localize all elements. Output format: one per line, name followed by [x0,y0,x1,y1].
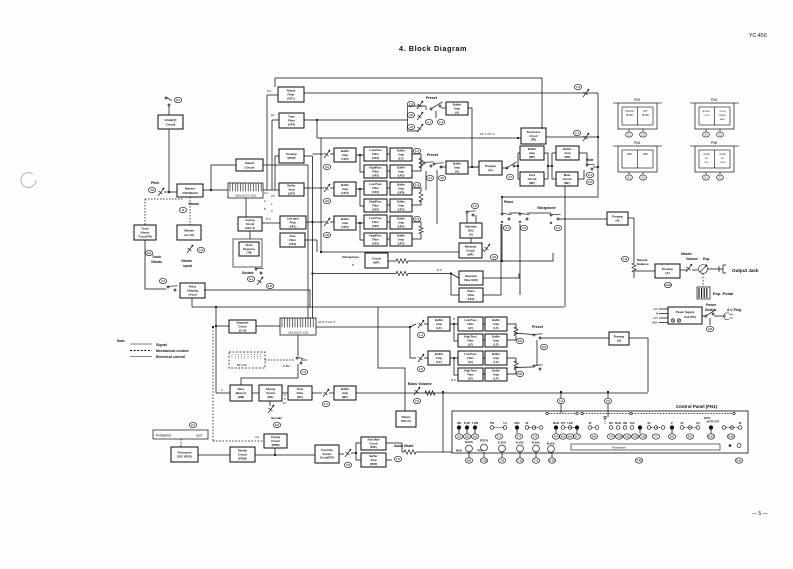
wire preamp input [274,156,276,190]
svg-text:Attack: Attack [245,161,255,165]
wire balance to preamp out [634,270,655,272]
svg-text:Filter: Filter [372,237,379,241]
svg-text:Buffer: Buffer [397,217,405,221]
svg-text:Touch: Touch [141,227,149,231]
panel PN5 [690,141,739,180]
connector 7-4 [407,101,414,106]
svg-text:7-6: 7-6 [415,399,419,403]
svg-text:Buffer: Buffer [397,149,405,153]
svg-text:Balance: Balance [637,262,649,266]
svg-text:Amp: Amp [398,169,404,173]
box Integrator [229,320,256,333]
wire MF mid [548,165,552,167]
wire lp UF3 [387,187,390,189]
power supply symbols [671,319,680,322]
wire to MF2 top [552,152,556,154]
svg-text:8-2: 8-2 [147,251,151,255]
wire trunk v3 [307,165,309,318]
svg-text:Filter: Filter [372,220,379,224]
pot UF2 [324,150,330,158]
junction [168,191,170,193]
svg-text:(UF3): (UF3) [372,207,379,211]
box Buffer [390,216,412,229]
svg-text:(UF5): (UF5) [372,224,379,228]
wire piano sw1 down [501,224,503,261]
wire dashed mech to keying PDM [212,327,214,441]
svg-text:1-2: 1-2 [439,120,443,124]
wire knob tick [474,430,476,434]
wire POF to pot [339,453,344,455]
connector 4-4 [520,225,527,230]
svg-text:PITCH: PITCH [480,439,488,443]
panel connector 7-4 [532,458,539,463]
panel connector 6-9 [668,434,675,439]
panel connector 6-8 [465,458,472,463]
svg-text:Power Supply: Power Supply [676,310,695,314]
wire vib sw to preamp [559,218,607,220]
svg-text:Filter: Filter [290,220,297,224]
wire knob tick [671,430,673,434]
wire UF3 to lowpass [360,188,364,190]
svg-text:1-5: 1-5 [415,217,419,221]
svg-text:2-2: 2-2 [588,180,592,184]
svg-text:ATT: ATT [561,421,566,425]
wire MF split [518,153,520,179]
panel knob VIB [623,426,627,430]
svg-text:SPEED: SPEED [719,115,727,117]
pot vibrato speed [187,245,193,253]
contact piano1 [501,221,503,223]
wire exp to jack [708,268,720,270]
connector 1-8 [266,283,273,288]
svg-text:5-1: 5-1 [704,177,708,180]
panel knob MAN [554,426,558,430]
svg-text:6-9: 6-9 [670,435,674,439]
wire keyboard to keying [245,198,247,217]
svg-text:300T: 300T [196,434,203,438]
svg-text:(A): (A) [455,111,459,115]
wire bufferA1 down [468,108,479,167]
panel knob ATT [561,426,565,430]
wire keyboard to UF7 [263,189,279,191]
svg-text:B: B [656,312,658,316]
svg-text:Keying: Keying [246,218,255,222]
svg-text:6-11: 6-11 [736,459,742,463]
svg-text:Preset: Preset [426,96,438,100]
svg-text:Circuit: Circuit [238,324,246,328]
connector 4-6 [490,254,497,259]
svg-text:YC-450: YC-450 [749,33,767,39]
svg-text:(UF5): (UF5) [372,241,379,245]
box Buffer [279,183,304,196]
svg-text:circuit: circuit [188,293,196,297]
box Pulse [180,283,205,298]
svg-text:Switch: Switch [705,308,716,312]
svg-text:Response: Response [243,248,256,251]
junction [274,454,276,456]
svg-text:8-1: 8-1 [457,435,461,439]
svg-text:PIA: PIA [609,421,613,425]
junction [501,260,503,262]
svg-text:Master: Master [681,252,693,256]
svg-text:4-1: 4-1 [505,226,509,230]
wire buffer LF 317 [450,323,454,325]
wire mech down [144,199,146,225]
wire buffer UF5 split [356,222,360,224]
wire into keying PDM [213,440,264,442]
box High Pass [458,368,483,381]
svg-text:(LF): (LF) [493,326,498,330]
svg-text:Circuit(POF): Circuit(POF) [320,457,334,460]
box Divider [230,447,255,462]
panel knob MBAL [533,445,540,452]
wire balance down [633,272,635,278]
selector circle e [630,412,632,414]
wire to preamp POP [275,155,279,157]
wire knob dash [494,427,503,429]
pot bass sustain [268,405,274,413]
junction [316,119,318,121]
panel connector 8-2 [463,434,470,439]
panel knob VIB [457,426,461,430]
switch piano 1 [501,213,512,220]
svg-text:6-10: 6-10 [549,459,555,463]
wire UF5 input [306,221,324,223]
svg-text:8' 4': 8' 4' [266,217,271,221]
panel connector 7-12 [631,434,638,439]
svg-text:(UF2): (UF2) [341,157,348,161]
wire marimba osc to circuit [470,238,472,243]
svg-text:LEN: LEN [567,421,572,425]
wire preset2 out [441,166,446,168]
junction [359,188,361,190]
connector 1-5 [417,366,424,371]
svg-text:Buffer: Buffer [492,335,500,339]
wire keyboard to man sw [297,335,299,356]
pot UF3 [324,184,330,192]
wire v443 [443,392,452,452]
svg-text:6-7: 6-7 [575,435,579,439]
connector 1-4 [417,332,424,337]
panel connector 7-1 [495,434,502,439]
wire am to panel [416,451,443,453]
panel dot [729,444,732,447]
wire tone filter out [304,119,408,121]
svg-text:PN3: PN3 [711,98,718,102]
wire selector dash 1 [548,413,576,415]
svg-text:(UF2): (UF2) [468,297,475,301]
svg-text:6-2: 6-2 [542,345,546,349]
switch sustain [255,268,264,274]
wire rowB up [420,158,422,168]
switch glide [165,97,172,106]
preset1 bracket [408,106,427,131]
wire to integrator [216,325,229,327]
connector 4-9 [148,187,155,192]
svg-text:Glide(V): Glide(V) [165,118,177,122]
svg-text:Keying: Keying [271,435,280,439]
wire sw to marimba osc [466,213,468,223]
svg-text:Electrical control: Electrical control [156,355,185,359]
junction [311,272,313,274]
connector 2-8 [706,326,713,331]
svg-text:(UE1~5): (UE1~5) [245,226,255,230]
ac plug symbol [724,313,733,320]
exp control circle [699,265,708,274]
svg-text:Filter: Filter [468,293,475,297]
svg-text:6-9: 6-9 [592,435,596,439]
svg-text:1-6: 1-6 [199,248,203,252]
svg-text:Piano: Piano [467,289,475,293]
svg-text:2-5: 2-5 [641,134,645,137]
svg-text:Bass Volume: Bass Volume [408,382,432,386]
svg-text:ATT: ATT [643,110,648,113]
svg-text:8-3: 8-3 [473,435,477,439]
svg-text:(UF1): (UF1) [290,224,297,228]
resistor row C [419,226,423,234]
touch response outer [233,239,262,267]
wire LF up out 317 [507,324,516,329]
wire LF up out 351 [507,358,516,363]
wire supply to switch [702,315,705,317]
wire v216 [215,307,217,393]
svg-text:(UF3): (UF3) [398,207,405,211]
portament bar [571,444,720,450]
svg-text:8.0: 8.0 [696,421,700,425]
svg-text:(MF): (MF) [468,253,474,257]
svg-text:Piano: Piano [504,200,513,204]
svg-text:Portament: Portament [156,434,171,438]
svg-text:4-10: 4-10 [665,283,671,287]
svg-text:(I1~I5): (I1~I5) [239,328,247,332]
svg-text:TW: TW [490,421,495,425]
wire UF3 out upper [412,188,421,192]
svg-text:-12V: -12V [652,316,658,320]
panel knob sw [730,426,734,430]
box Preamp [607,212,628,225]
wire hp UF2 [387,170,390,172]
svg-text:7-9: 7-9 [396,457,400,461]
box Buffer [390,165,412,178]
junction [212,326,214,328]
svg-text:6-6: 6-6 [568,435,572,439]
box Touch [239,242,259,256]
wire lp out 317 [483,323,485,325]
box Buffer [334,182,356,196]
svg-text:1-7: 1-7 [324,402,328,406]
svg-text:Low Pass: Low Pass [464,352,477,356]
panel circle [737,444,741,448]
svg-text:HighPass: HighPass [369,166,382,170]
wire knob tick [516,430,518,434]
box Tone [280,233,305,247]
wire UF5 out lower [412,234,421,239]
svg-text:PRE: PRE [643,153,648,156]
panel connector 6-6 [566,434,573,439]
svg-text:EV: EV [705,158,708,160]
box Circuit [365,253,388,268]
connector 7-8 [344,462,351,467]
connector 1-3 [554,225,561,230]
wire selector riser [604,419,606,424]
panel connector 7-9 [498,458,505,463]
svg-text:7-11: 7-11 [624,435,630,439]
box Attack [236,159,263,171]
junction [409,326,411,328]
junction [517,137,519,139]
svg-text:Filter: Filter [467,338,473,342]
panel knob PIA [609,426,613,430]
box Low Pass [364,215,387,229]
svg-text:(LF): (LF) [493,376,498,380]
junction [215,325,217,327]
svg-text:8' 4': 8' 4' [451,378,456,382]
panel PN2 [613,98,662,137]
junction [597,166,599,168]
box Percussion [521,128,546,144]
wire to mute circuit [552,153,556,179]
svg-text:50%: 50% [704,162,708,164]
svg-text:Sustain: Sustain [242,271,254,275]
connector 1-1 [413,148,420,153]
pot preset1c [417,124,423,132]
svg-text:6-5: 6-5 [561,435,565,439]
box HighPass [364,165,387,178]
svg-text:Vibraphone: Vibraphone [537,206,556,210]
wire glide sw to glide circuit [168,106,170,115]
svg-text:Exp.: Exp. [703,257,710,261]
svg-text:PN5: PN5 [711,141,718,145]
wire UF5 to highpass [360,223,364,240]
svg-text:M.VOL: M.VOL [547,442,556,446]
wire knob tick2 [483,452,485,458]
svg-text:osc (V): osc (V) [184,233,194,237]
selector circle c [581,412,583,414]
svg-text:OSC (POG): OSC (POG) [177,455,192,459]
svg-text:Circuit: Circuit [370,442,378,445]
box Buffer [390,199,412,212]
wire to pot LF2 [410,327,416,358]
wire knob tick2 [468,452,470,458]
resistor auto mute [404,450,416,454]
connector 1-9 [621,256,628,261]
box Vibrato [396,411,416,427]
svg-text:Amp: Amp [493,356,499,360]
svg-text:Amp: Amp [398,220,404,224]
svg-text:High Pass: High Pass [464,335,477,339]
wire pot to buffer UF2 [330,153,334,155]
legend mechanical line [130,350,152,352]
wire knob dash [651,427,661,429]
connector 4-7 [506,174,513,179]
connector 2-4 [189,422,196,427]
box Vibrato [177,225,201,240]
selector circle d [604,416,606,418]
wire bufferA2 to preamp [468,166,479,168]
connector 7-6 [413,398,420,403]
junction [311,221,313,223]
junction [597,136,599,138]
selector circle b [576,412,578,414]
svg-text:Filter: Filter [372,169,379,173]
connector 1-5 [413,216,420,221]
svg-text:BASS: BASS [465,440,473,444]
svg-text:Portament: Portament [612,446,626,450]
svg-text:(MF): (MF) [529,181,535,185]
wire knob dash [592,427,595,429]
pot master volume [686,264,692,272]
wire UF3 to highpass [360,189,364,206]
box Low Pass [458,351,483,365]
wire LF split 351 [454,358,458,375]
selector circle a [546,412,548,414]
box Mute [556,172,578,186]
svg-text:(BE): (BE) [268,395,274,399]
panel connector 7-2 [531,434,538,439]
wire auto mute out [386,443,402,452]
box Buffer [361,453,386,467]
wire buffer LF 351 [450,357,454,359]
svg-text:(MF): (MF) [529,155,535,159]
svg-text:(UF4): (UF4) [289,242,296,246]
switch power [705,310,716,317]
svg-text:2': 2' [264,199,266,203]
svg-text:Buffer: Buffer [397,166,405,170]
wire portament slider to osc [180,439,182,447]
svg-text:(POP): (POP) [287,156,295,160]
box Tone [288,386,312,400]
connector 1-1 [425,119,432,124]
svg-text:UKs:K(C2~C6): UKs:K(C2~C6) [235,194,256,198]
svg-text:HighPass: HighPass [369,234,382,238]
wire knob dash [529,427,539,429]
contact vib [550,222,552,224]
wire keying to lowpass [262,222,280,224]
panel connector 7-10 [480,458,487,463]
svg-text:8': 8' [352,263,355,267]
svg-text:(MF): (MF) [373,261,379,265]
svg-text:6-12: 6-12 [728,435,734,439]
wire to pot LF1 [410,324,416,327]
pot bass volume [414,387,420,395]
svg-text:(LF): (LF) [436,360,441,364]
svg-text:5.4: 5.4 [503,421,507,425]
svg-text:8': 8' [453,317,456,321]
svg-text:6-3: 6-3 [275,423,279,427]
portament slider box [153,430,208,439]
svg-text:7-1: 7-1 [575,131,579,135]
pot UF5 [324,218,330,226]
connector 4-6 [323,198,330,203]
connector 11 [179,207,186,212]
svg-text:BP 13K: BP 13K [237,363,247,367]
svg-text:Touch: Touch [245,244,253,247]
svg-text:Preset: Preset [427,153,439,157]
wire pot to buffer UF5 [330,221,334,223]
svg-text:1-9: 1-9 [623,257,627,261]
wire to piano sw1 [408,260,502,262]
wire vib row right [502,253,553,261]
box Keying [264,434,287,448]
svg-text:Buffer: Buffer [492,352,500,356]
switch man/pedal [296,357,304,364]
junction [453,357,455,359]
wire UF2 to lowpass [360,154,364,156]
wire supply lead +2V [659,308,668,310]
wire POG to divider [198,454,230,456]
panel PN4 [613,141,662,180]
wire knob tick [458,430,460,434]
